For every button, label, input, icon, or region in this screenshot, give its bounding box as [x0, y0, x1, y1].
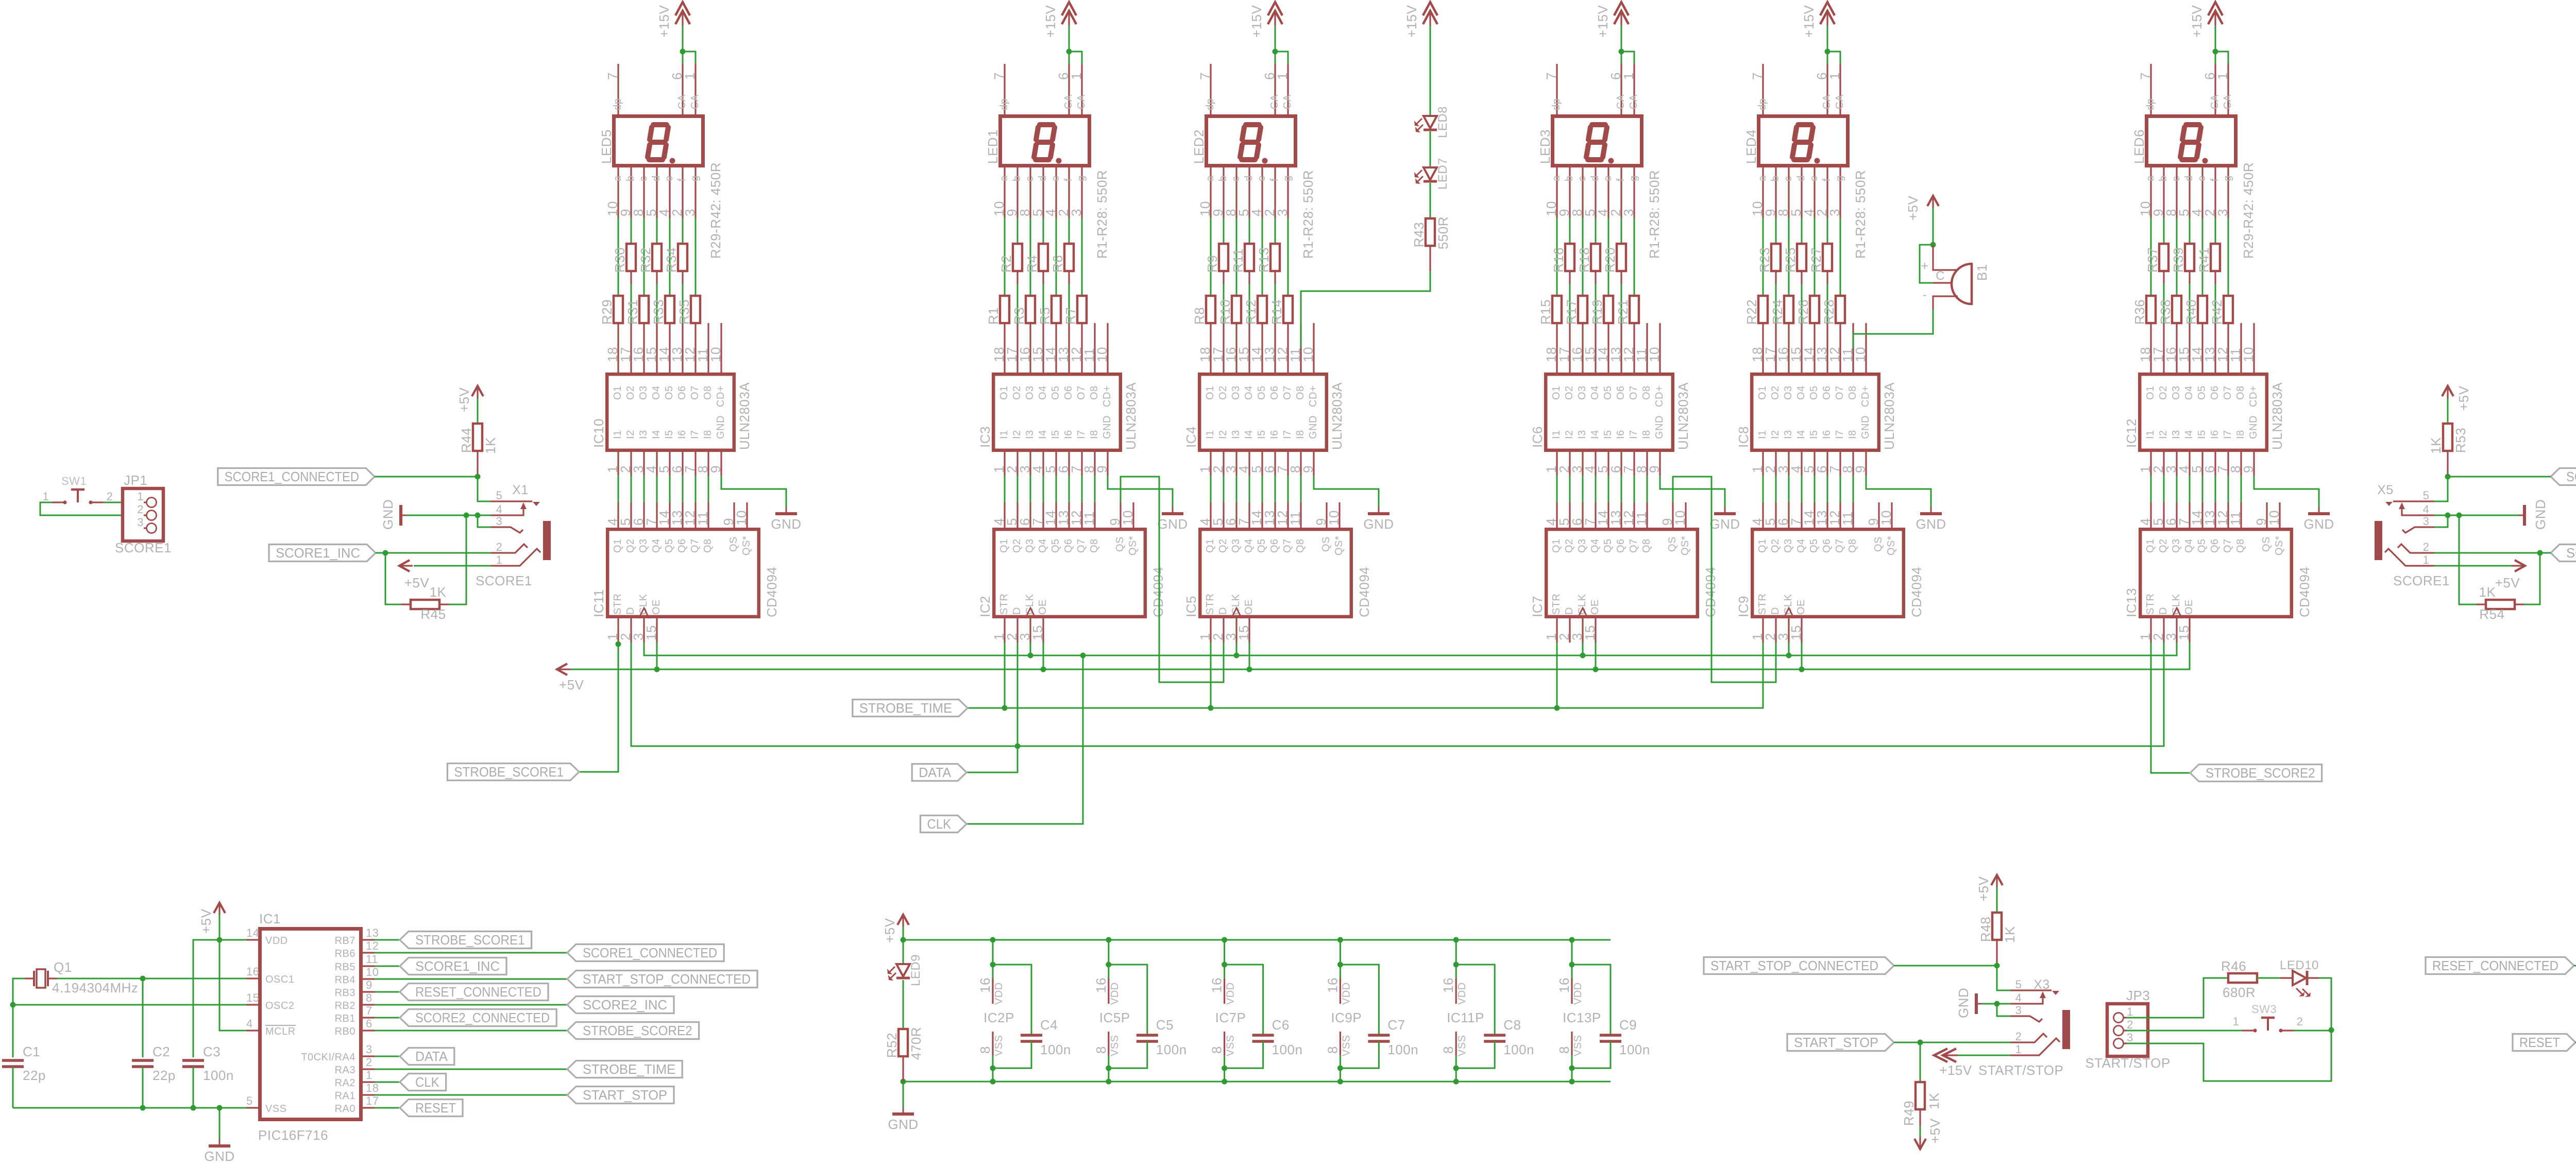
svg-text:R2: R2: [998, 255, 1014, 273]
svg-text:OE: OE: [1243, 599, 1255, 615]
wire IC4 pin 2 to IC5: [1223, 476, 1225, 502]
svg-text:1K: 1K: [1926, 1092, 1942, 1109]
svg-text:STR: STR: [1757, 594, 1768, 615]
LED1 segment pin f (2): [1068, 167, 1070, 218]
svg-text:R21: R21: [1615, 299, 1631, 325]
svg-text:Q3: Q3: [1577, 538, 1588, 553]
IC7 top pin 4 (Q1): [1556, 502, 1557, 528]
resistor R23: [1775, 218, 1777, 244]
svg-text:Q4: Q4: [2183, 538, 2195, 553]
svg-text:STR: STR: [612, 594, 623, 615]
pushbutton SW1: [52, 501, 65, 503]
svg-text:Q6: Q6: [676, 538, 688, 553]
capacitor C7 100n: [1340, 965, 1379, 1035]
svg-text:O7: O7: [1076, 385, 1087, 400]
svg-text:C8: C8: [1503, 1017, 1521, 1033]
svg-text:15: 15: [1030, 625, 1045, 640]
svg-text:c: c: [1577, 176, 1588, 182]
svg-text:5: 5: [2015, 978, 2022, 991]
svg-text:18: 18: [366, 1082, 379, 1094]
IC6 bottom pin 8 (I8): [1646, 452, 1648, 476]
svg-text:22p: 22p: [23, 1068, 46, 1083]
IC5 pin 9 (QS) stub: [1326, 502, 1327, 528]
IC3 bottom pin 4 (I4): [1042, 452, 1044, 476]
IC13 top pin 12 (Q7): [2227, 502, 2229, 528]
wire IC8 pin 2 to IC9: [1775, 476, 1777, 502]
svg-text:10: 10: [366, 966, 379, 979]
svg-text:IC5P: IC5P: [1099, 1010, 1130, 1025]
IC8 top pin 15 (O4): [1801, 323, 1802, 373]
svg-text:GND: GND: [204, 1149, 234, 1164]
ground bottom rail: [903, 1081, 1611, 1083]
IC11 bottom pin 1 (STR): [617, 618, 619, 643]
svg-text:RA1: RA1: [335, 1090, 355, 1102]
svg-text:VSS: VSS: [265, 1103, 287, 1115]
svg-text:d: d: [1037, 175, 1048, 181]
svg-text:QS: QS: [1114, 536, 1126, 552]
svg-text:2: 2: [2423, 541, 2430, 553]
IC8 bottom pin 8 (I8): [1852, 452, 1854, 476]
svg-text:VDD: VDD: [1456, 982, 1468, 1005]
svg-text:LED1: LED1: [985, 129, 1001, 164]
IC9 CLK edge symbol: [1784, 608, 1794, 618]
svg-text:dp: dp: [1205, 98, 1216, 110]
svg-text:I3: I3: [1577, 430, 1588, 439]
svg-text:Q6: Q6: [1615, 538, 1626, 553]
LED2 segment pin b (9): [1223, 167, 1224, 218]
wire ULN GND pin to ground: [1314, 476, 1379, 508]
+5V rail under shift registers: [559, 643, 2190, 669]
IC9 top pin 5 (Q2): [1775, 502, 1776, 528]
svg-text:1: 1: [2233, 1015, 2240, 1028]
svg-text:Q5: Q5: [1050, 538, 1061, 553]
CD4094 shift register IC13: [2140, 529, 2292, 617]
svg-text:100n: 100n: [1040, 1042, 1071, 1057]
+15V supply arrow above LED1: [1062, 2, 1076, 15]
svg-text:3: 3: [137, 516, 144, 529]
LED2 segment pin a (10): [1210, 167, 1211, 218]
svg-text:I6: I6: [1063, 430, 1074, 439]
ground symbol: [2318, 507, 2320, 513]
IC1 pin 10 (RB4): [363, 978, 375, 980]
svg-text:R4: R4: [1024, 255, 1040, 273]
wire GND to jack pin 4: [1982, 1003, 2010, 1005]
svg-text:1K: 1K: [2002, 926, 2018, 943]
+15V arrow above LED8: [1423, 2, 1437, 15]
wire IC8 pin 8 to IC9: [1853, 476, 1854, 502]
wire STR riser: [1210, 643, 1212, 708]
wire to resistor R45: [385, 553, 401, 604]
svg-text:I4: I4: [1589, 430, 1601, 439]
resistor R35: [695, 218, 697, 296]
svg-text:3: 3: [2015, 1004, 2022, 1017]
IC6 bottom pin 9 (GND): [1659, 452, 1660, 476]
svg-text:+15V: +15V: [656, 5, 672, 38]
svg-text:RB2: RB2: [335, 1000, 355, 1011]
svg-text:IC1: IC1: [259, 911, 281, 926]
wire IC6 pin 3 to IC7: [1582, 476, 1584, 502]
svg-text:+5V: +5V: [1905, 195, 1921, 221]
svg-text:ULN2803A: ULN2803A: [1882, 382, 1897, 450]
svg-text:O1: O1: [1205, 385, 1216, 400]
svg-text:QS: QS: [2261, 536, 2272, 552]
svg-text:Q5: Q5: [664, 538, 675, 553]
svg-text:OE: OE: [651, 599, 662, 615]
svg-text:f: f: [2209, 178, 2221, 181]
svg-text:1: 1: [2215, 72, 2230, 80]
net flag SCORE1_CONNECTED: [218, 468, 375, 485]
IC3 bottom pin 8 (I8): [1094, 452, 1095, 476]
svg-text:I1: I1: [1757, 430, 1768, 439]
svg-text:CD4094: CD4094: [764, 567, 779, 617]
svg-text:IC7P: IC7P: [1215, 1010, 1246, 1025]
svg-text:7: 7: [366, 1004, 372, 1017]
svg-text:IC8: IC8: [1736, 426, 1751, 448]
capacitor C9 100n: [1572, 965, 1611, 1035]
svg-text:7: 7: [2138, 72, 2153, 80]
svg-text:ULN2803A: ULN2803A: [1675, 382, 1691, 450]
svg-text:O2: O2: [625, 385, 636, 400]
wire OE riser: [1249, 643, 1250, 669]
IC8 bottom pin 4 (I4): [1801, 452, 1802, 476]
net flag STROBE_SCORE2 (at IC13): [2190, 765, 2322, 782]
wire ULN GND pin to ground: [1866, 476, 1931, 508]
IC2 bottom pin 1 (STR): [1004, 618, 1005, 643]
net flag STROBE_SCORE1 (at IC11): [447, 764, 579, 781]
svg-text:IC4: IC4: [1183, 426, 1199, 448]
IC9 bottom pin 2 (D): [1775, 618, 1776, 643]
IC2 top pin 13 (Q6): [1068, 502, 1070, 528]
wire IC2 D riser: [1017, 643, 1019, 746]
svg-text:O3: O3: [1024, 385, 1036, 400]
svg-text:O6: O6: [1269, 385, 1280, 400]
svg-text:7: 7: [1197, 72, 1213, 80]
svg-text:C: C: [1936, 269, 1945, 283]
svg-text:I2: I2: [625, 430, 636, 439]
svg-text:SCORE2_CONNECTED: SCORE2_CONNECTED: [2566, 469, 2576, 484]
+15V arrow at jack pin 1: [1934, 1049, 1947, 1062]
svg-text:X5: X5: [2377, 483, 2394, 497]
capacitor C5 100n: [1109, 965, 1147, 1035]
svg-text:I7: I7: [1834, 430, 1845, 439]
IC4 top pin 11 (O8): [1300, 323, 1301, 373]
wire to jack pin 3: [478, 515, 491, 527]
svg-text:10: 10: [708, 347, 723, 362]
resistor R7: [1081, 218, 1083, 296]
IC10 bottom pin 1 (I1): [617, 452, 619, 476]
svg-text:10: 10: [1094, 347, 1110, 362]
wire IC1 to STROBE_SCORE2 flag: [375, 1030, 567, 1032]
svg-text:R14: R14: [1269, 299, 1284, 325]
wire cascade IC2 QS to IC5 D: [1121, 477, 1224, 682]
IC power pins IC13P: [1571, 940, 1573, 965]
wire CLK pin riser: [1788, 643, 1790, 655]
svg-text:R43: R43: [1411, 222, 1427, 247]
svg-text:RB0: RB0: [335, 1026, 355, 1037]
IC4 bottom pin 9 (GND): [1313, 452, 1314, 476]
wire IC1 to START_STOP_CONNECTED flag: [375, 979, 567, 980]
svg-text:O4: O4: [1243, 385, 1255, 400]
svg-text:Q2: Q2: [2158, 538, 2169, 553]
svg-text:GND: GND: [1916, 516, 1946, 532]
svg-text:R9: R9: [1205, 255, 1220, 273]
net flag SCORE2_INC (at IC1): [567, 997, 674, 1014]
svg-text:I3: I3: [638, 430, 649, 439]
IC12 bottom pin 3 (I3): [2176, 452, 2177, 476]
IC8 bottom pin 5 (I5): [1814, 452, 1815, 476]
IC11 top pin 5 (Q2): [630, 502, 632, 528]
ground symbol at jack: [399, 505, 402, 526]
IC12 top pin 13 (O6): [2214, 323, 2216, 373]
resistor R17: [1582, 218, 1584, 296]
svg-text:3: 3: [1275, 209, 1290, 216]
wire IC12 pin 4 to IC13: [2189, 476, 2191, 502]
IC2 top pin 6 (Q3): [1029, 502, 1031, 528]
LED1 CA pins 6,1: [1068, 64, 1070, 114]
wire IC8 pin 6 to IC9: [1827, 476, 1828, 502]
svg-text:START_STOP: START_STOP: [1794, 1035, 1878, 1050]
IC8 bottom pin 1 (I1): [1762, 452, 1764, 476]
wire IC8 pin 3 to IC9: [1788, 476, 1790, 502]
wire IC12 pin 8 to IC13: [2241, 476, 2242, 502]
svg-text:IC11: IC11: [591, 589, 606, 617]
IC11 top pin 4 (Q1): [617, 502, 619, 528]
svg-text:b: b: [625, 175, 636, 181]
svg-text:R42: R42: [2209, 299, 2225, 325]
IC1 pin 4 (MCLR): [246, 1030, 258, 1031]
svg-text:Q4: Q4: [1795, 538, 1807, 553]
LED2 CA pins 6,1: [1274, 64, 1276, 114]
svg-text:17: 17: [366, 1094, 379, 1107]
IC4 bottom pin 3 (I3): [1235, 452, 1237, 476]
wire to jack pin 5: [1997, 966, 2010, 990]
svg-text:RESET_CONNECTED: RESET_CONNECTED: [2432, 958, 2558, 973]
svg-text:11: 11: [366, 953, 378, 966]
wire IC12 pin 5 to IC13: [2202, 476, 2204, 502]
IC13 bottom pin 2 (D): [2163, 618, 2164, 643]
IC6 top pin 16 (O3): [1582, 323, 1583, 373]
wire IC3 pin 3 to IC2: [1030, 476, 1031, 502]
resistor R6: [1069, 218, 1070, 244]
IC13 top pin 5 (Q2): [2163, 502, 2164, 528]
wire CLK pin riser: [1030, 643, 1031, 655]
IC8 bottom pin 2 (I2): [1775, 452, 1776, 476]
svg-text:CA: CA: [676, 94, 688, 109]
junction CLK bus: [1234, 653, 1240, 659]
wire IC6 pin 2 to IC7: [1569, 476, 1571, 502]
svg-text:CLK: CLK: [1577, 594, 1588, 615]
svg-text:c: c: [1230, 176, 1242, 182]
+5V arrow above B1: [1927, 196, 1939, 206]
IC3 bottom pin 1 (I1): [1004, 452, 1005, 476]
LED LED10: [2280, 977, 2293, 979]
IC4 bottom pin 2 (I2): [1223, 452, 1224, 476]
resistor R26: [1814, 218, 1816, 296]
svg-text:e: e: [1808, 175, 1820, 181]
net flag START_STOP_CONNECTED: [1704, 957, 1894, 974]
IC11 top pin 14 (Q5): [669, 502, 670, 528]
svg-text:QS*: QS*: [1333, 536, 1345, 555]
resistor R36: [2150, 218, 2152, 296]
wire OE riser: [1595, 643, 1597, 669]
IC5 top pin 5 (Q2): [1223, 502, 1224, 528]
net flag STROBE_SCORE1 (at IC1): [400, 932, 532, 949]
svg-text:Q7: Q7: [1282, 538, 1293, 553]
svg-text:1: 1: [366, 1069, 372, 1082]
svg-text:7: 7: [1750, 72, 1765, 80]
svg-text:O8: O8: [1295, 385, 1306, 400]
junction CLK bus: [1580, 653, 1586, 659]
wire IC3 pin 7 to IC2: [1081, 476, 1083, 502]
IC5 top pin 13 (Q6): [1274, 502, 1276, 528]
svg-text:O6: O6: [2209, 385, 2221, 400]
svg-text:Q4: Q4: [1243, 538, 1255, 553]
wire IC1 to SCORE2_CONNECTED flag: [375, 1017, 400, 1019]
junction pin4/pulldown branch: [464, 513, 469, 518]
svg-text:O3: O3: [1783, 385, 1794, 400]
svg-text:5: 5: [2423, 489, 2430, 502]
svg-text:R36: R36: [2132, 299, 2147, 325]
svg-text:SCORE1_INC: SCORE1_INC: [276, 545, 360, 561]
svg-text:10: 10: [734, 510, 749, 526]
wire IC4 pin 3 to IC5: [1236, 476, 1238, 502]
IC10 top pin 18 (O1): [617, 323, 619, 373]
resistor R28: [1840, 218, 1841, 296]
wire to B1 C pin: [1920, 245, 1933, 283]
IC10 top pin 17 (O2): [630, 323, 632, 373]
wire LED7 to R43: [1430, 183, 1431, 218]
svg-text:I4: I4: [1243, 430, 1255, 439]
svg-text:I4: I4: [1037, 430, 1048, 439]
svg-text:11: 11: [695, 511, 710, 526]
ground symbol at jack: [1975, 993, 1978, 1014]
svg-text:16: 16: [1093, 977, 1109, 993]
svg-text:3: 3: [2423, 515, 2430, 528]
+5V arrow at jack pin 1: [2515, 560, 2525, 571]
svg-text:c: c: [1024, 176, 1036, 182]
resistor R3: [1030, 218, 1031, 296]
svg-text:1: 1: [2423, 553, 2430, 566]
junction pin4/pulldown branch: [2456, 513, 2462, 518]
svg-text:CD+: CD+: [1654, 385, 1665, 407]
svg-text:VDD: VDD: [1341, 982, 1352, 1005]
svg-text:Q3: Q3: [638, 538, 649, 553]
wire IC6 pin 5 to IC7: [1608, 476, 1609, 502]
resistor R52 470R: [899, 1029, 908, 1056]
IC4 top pin 14 (O5): [1261, 323, 1263, 373]
svg-text:+5V: +5V: [882, 918, 897, 943]
svg-text:+: +: [1921, 259, 1929, 273]
svg-text:b: b: [1564, 175, 1575, 181]
svg-text:1: 1: [2127, 1005, 2133, 1018]
wire IC4 pin 8 to IC5: [1300, 476, 1302, 502]
IC13 top pin 4 (Q1): [2150, 502, 2151, 528]
IC11 bottom pin 2 (D): [630, 618, 632, 643]
junction at LED4 CA: [1825, 49, 1831, 55]
svg-text:I1: I1: [998, 430, 1010, 439]
display LED2 (7-segment, CA): [1207, 116, 1296, 166]
junction VSS rail: [217, 1105, 223, 1111]
svg-text:10: 10: [1120, 510, 1136, 526]
ground symbol: [1378, 507, 1380, 513]
svg-text:O2: O2: [2158, 385, 2169, 400]
svg-text:I3: I3: [1230, 430, 1242, 439]
svg-text:O3: O3: [2171, 385, 2182, 400]
svg-text:+5V: +5V: [559, 677, 584, 693]
wire IC4 pin 4 to IC5: [1249, 476, 1250, 502]
svg-text:CD+: CD+: [1860, 385, 1871, 407]
svg-text:3: 3: [496, 515, 503, 528]
svg-text:R19: R19: [1589, 299, 1605, 325]
svg-text:CLK: CLK: [415, 1074, 439, 1090]
LED6 segment pin c (8): [2176, 167, 2177, 218]
svg-text:O2: O2: [1011, 385, 1023, 400]
wire to jack pin 3: [1997, 1004, 2010, 1016]
svg-text:CD+: CD+: [1308, 385, 1319, 407]
svg-text:O3: O3: [1230, 385, 1242, 400]
svg-text:O6: O6: [1821, 385, 1833, 400]
wire SW3 to node: [2294, 1030, 2331, 1032]
svg-text:16: 16: [1556, 977, 1572, 993]
svg-text:d: d: [651, 175, 662, 181]
IC1 pin 13 (RB7): [363, 939, 375, 940]
svg-text:R30: R30: [612, 247, 628, 273]
svg-text:Q3: Q3: [1230, 538, 1242, 553]
svg-text:OE: OE: [1795, 599, 1807, 615]
svg-text:15: 15: [643, 625, 659, 640]
IC6 top pin 11 (O8): [1646, 323, 1648, 373]
svg-text:R8: R8: [1192, 307, 1207, 325]
svg-text:I1: I1: [2145, 430, 2156, 439]
svg-text:R23: R23: [1757, 247, 1772, 273]
svg-text:Q2: Q2: [625, 538, 636, 553]
junction STROBE_TIME bus: [1554, 705, 1560, 711]
LED6 segment pin d (5): [2189, 167, 2190, 218]
resistor R33: [669, 218, 671, 296]
svg-text:+5V: +5V: [2495, 575, 2520, 591]
audio jack X3: [2010, 989, 2052, 991]
svg-text:X1: X1: [512, 483, 529, 497]
svg-text:GND: GND: [2248, 415, 2259, 439]
wire to ground: [903, 1082, 904, 1108]
resistor R48 1K: [1996, 887, 1998, 913]
IC6 bottom pin 6 (I6): [1620, 452, 1622, 476]
IC6 top pin 12 (O7): [1633, 323, 1635, 373]
svg-text:LED5: LED5: [599, 129, 614, 164]
net flag SCORE2_INC: [2551, 545, 2576, 562]
IC3 bottom pin 5 (I5): [1055, 452, 1057, 476]
svg-text:QS*: QS*: [741, 536, 752, 555]
svg-text:-: -: [1923, 288, 1927, 302]
svg-text:RA2: RA2: [335, 1077, 355, 1089]
svg-text:+15V: +15V: [2189, 5, 2205, 38]
IC8 bottom pin 6 (I6): [1826, 452, 1828, 476]
IC7 bottom pin 1 (STR): [1556, 618, 1557, 643]
IC3 top pin 13 (O6): [1068, 323, 1070, 373]
IC9 top pin 4 (Q1): [1762, 502, 1764, 528]
LED3 segment pin e (4): [1607, 167, 1609, 218]
svg-text:10: 10: [1878, 510, 1894, 526]
svg-text:R17: R17: [1564, 299, 1579, 325]
junction at LED1 CA: [1066, 49, 1072, 55]
IC9 bottom pin 3 (CLK): [1788, 618, 1789, 643]
resistor R25: [1801, 218, 1803, 244]
svg-text:O6: O6: [1063, 385, 1074, 400]
svg-text:O2: O2: [1564, 385, 1575, 400]
svg-text:3: 3: [1069, 209, 1084, 216]
IC7 top pin 5 (Q2): [1569, 502, 1570, 528]
net flag SCORE2_CONNECTED: [2551, 468, 2576, 485]
